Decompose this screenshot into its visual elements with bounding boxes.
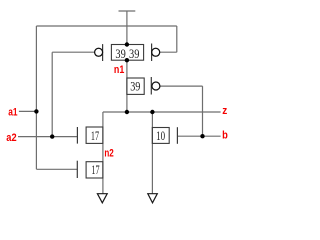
junction dot VDD-box1 top — [125, 42, 129, 46]
svg-text:17: 17 — [91, 129, 99, 143]
wire nmos right chain vertical — [151, 112, 153, 194]
svg-text:a1: a1 — [8, 106, 17, 118]
transistor N3 (right NMOS, width 10) — [152, 128, 169, 144]
svg-text:39: 39 — [115, 47, 125, 61]
svg-text:a2: a2 — [6, 132, 16, 144]
ground left — [97, 194, 107, 203]
junction dot z / P3 drain — [125, 110, 129, 114]
junction dot a2 — [50, 134, 54, 138]
gate bar left PMOS — [102, 44, 104, 61]
ground right — [148, 194, 158, 203]
gate bar right PMOS — [151, 44, 153, 62]
transistor N2 (lower NMOS, width 17) — [86, 162, 103, 178]
power VDD — [119, 11, 136, 45]
wire b net: horizontal to NMOS gate bar, vertical loop to PMOS bubble — [160, 86, 221, 136]
svg-text:17: 17 — [91, 163, 99, 177]
bubble right PMOS gate — [152, 48, 160, 56]
transistor pair P1/P2 (parallel PMOS, widths 39 39) — [111, 45, 143, 61]
svg-text:n2: n2 — [104, 148, 113, 160]
svg-text:10: 10 — [156, 129, 165, 143]
svg-text:n1: n1 — [114, 64, 124, 76]
gate bar N3 — [176, 127, 178, 144]
svg-text:z: z — [222, 105, 227, 117]
wire a1 net: stub, vertical, top loop to right PMOS gate, bottom run to lower NMOS gate — [19, 26, 177, 169]
bubble P3 gate — [152, 82, 160, 90]
gate bar N1 — [76, 127, 78, 144]
wire node z rail — [103, 111, 221, 113]
wire a2 net: stub to upper NMOS gate, vertical to left PMOS gate — [18, 52, 95, 136]
transistor N1 (upper NMOS, width 17) — [86, 127, 103, 143]
svg-text:b: b — [222, 130, 228, 142]
gate bar P3 — [150, 77, 152, 95]
junction dot z / N3 drain — [150, 110, 154, 114]
svg-text:39: 39 — [130, 80, 140, 94]
transistor P3 (PMOS, width 39) — [127, 78, 144, 94]
junction dot box1 bottom / n1 — [125, 58, 129, 62]
junction dot a1 — [34, 109, 38, 113]
gate bar N2 — [76, 161, 78, 178]
bubble left PMOS gate — [95, 48, 103, 56]
wire pmos chain vertical — [126, 60, 128, 112]
wire nmos left chain vertical — [102, 112, 104, 194]
junction dot b — [200, 134, 204, 138]
svg-text:39: 39 — [129, 47, 139, 61]
